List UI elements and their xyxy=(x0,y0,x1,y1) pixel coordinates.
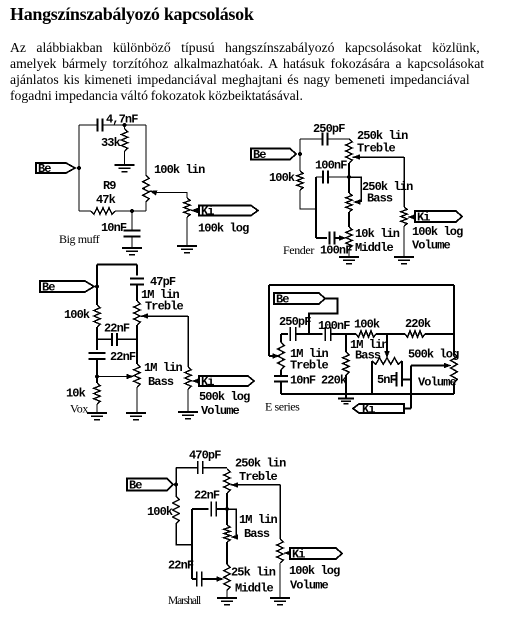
potentiometer 100k log Volume xyxy=(401,207,407,226)
potentiometer 100k log Volume xyxy=(277,539,283,563)
svg-text:22nF: 22nF xyxy=(194,488,220,502)
svg-text:100k: 100k xyxy=(147,505,173,519)
svg-text:Middle: Middle xyxy=(235,581,274,595)
wire Be to top rail xyxy=(299,139,301,154)
svg-text:R9: R9 xyxy=(103,179,116,193)
wire outer box top xyxy=(269,284,454,286)
wire treble wiper to volume xyxy=(403,157,405,207)
node junction top xyxy=(122,123,126,127)
svg-text:33k: 33k xyxy=(101,136,121,150)
capacitor 22nF vertical xyxy=(89,353,106,359)
svg-text:500k log: 500k log xyxy=(408,347,459,361)
ground under Bass xyxy=(126,413,146,420)
wiper wire Treble xyxy=(141,313,149,319)
resistor 220k vertical xyxy=(345,334,347,352)
output tag Ki xyxy=(415,211,462,222)
svg-text:500k log: 500k log xyxy=(199,390,250,404)
svg-text:Ki: Ki xyxy=(417,210,430,224)
svg-text:100k log: 100k log xyxy=(289,564,340,578)
svg-text:100k log: 100k log xyxy=(198,221,249,235)
svg-text:1M lin: 1M lin xyxy=(144,361,183,375)
potentiometer 1M lin Bass body xyxy=(372,358,402,364)
wiper wire Treble xyxy=(353,154,361,160)
svg-text:47k: 47k xyxy=(96,193,116,207)
bass wiper loop xyxy=(227,509,236,537)
potentiometer 250k lin Treble xyxy=(224,469,230,493)
arrow into treble wiper xyxy=(269,355,276,357)
svg-text:250pF: 250pF xyxy=(279,315,311,329)
wire outer box left xyxy=(268,285,270,356)
wire left rail mid xyxy=(96,327,98,350)
capacitor 470pF xyxy=(198,461,203,474)
wire bass left leg xyxy=(371,361,373,394)
wire Ki feed xyxy=(410,394,412,409)
svg-text:Treble: Treble xyxy=(145,299,184,313)
wiper wire of 100k lin xyxy=(150,190,158,195)
svg-text:Fender: Fender xyxy=(283,243,314,257)
svg-text:220k: 220k xyxy=(405,317,431,331)
svg-text:Volume: Volume xyxy=(412,238,451,252)
resistor 100k xyxy=(173,496,179,524)
capacitor 250pF xyxy=(323,133,328,146)
svg-text:Ki: Ki xyxy=(292,547,305,561)
svg-text:5nF: 5nF xyxy=(377,373,397,387)
svg-text:25k lin: 25k lin xyxy=(231,565,276,579)
potentiometer 1M lin Bass xyxy=(224,525,230,542)
potentiometer 250k lin Treble xyxy=(346,139,352,163)
svg-text:100k lin: 100k lin xyxy=(154,163,205,177)
ground under Volume xyxy=(394,257,414,264)
svg-text:47pF: 47pF xyxy=(150,275,176,289)
title xyxy=(10,4,254,25)
resistor 33k xyxy=(124,125,126,129)
capacitor 22nF lower xyxy=(192,578,196,580)
input tag Be xyxy=(40,281,94,292)
resistor 100k xyxy=(356,331,376,337)
wire Be feed xyxy=(309,299,338,335)
svg-text:100k: 100k xyxy=(269,171,295,185)
svg-text:250pF: 250pF xyxy=(313,122,345,136)
svg-text:Ki: Ki xyxy=(201,204,214,218)
svg-text:100nF: 100nF xyxy=(318,319,350,333)
capacitor 47pF xyxy=(136,265,138,276)
svg-text:100k: 100k xyxy=(354,317,380,331)
capacitor 10nF xyxy=(131,211,133,231)
potentiometer 100k lin xyxy=(143,175,149,202)
svg-text:Be: Be xyxy=(38,162,51,176)
svg-text:Bass: Bass xyxy=(244,527,270,541)
svg-text:Marshall: Marshall xyxy=(168,595,201,607)
svg-text:Volume: Volume xyxy=(418,375,457,389)
wire middle rail x192 xyxy=(191,509,193,579)
input tag Be xyxy=(127,479,173,491)
node bottom junction xyxy=(130,209,134,213)
svg-text:470pF: 470pF xyxy=(189,448,221,462)
potentiometer 1M lin Treble xyxy=(134,301,140,325)
ground under Middle xyxy=(217,598,237,605)
capacitor 100nF lower xyxy=(316,237,327,239)
wire left rail xyxy=(78,125,80,211)
output tag Ki xyxy=(290,548,342,559)
node Be junction xyxy=(174,482,178,486)
svg-text:E series: E series xyxy=(265,400,300,414)
resistor 10k xyxy=(94,383,100,404)
wire top rail xyxy=(300,138,322,140)
svg-text:Bass: Bass xyxy=(367,191,393,205)
resistor 100k xyxy=(94,305,100,327)
resistor R9 47k bottom rail xyxy=(79,210,91,212)
potentiometer 500k log Volume xyxy=(453,285,455,353)
bass wiper loop xyxy=(349,177,361,202)
ground under Volume xyxy=(178,412,198,419)
svg-text:Middle: Middle xyxy=(355,241,394,255)
svg-text:10nF: 10nF xyxy=(101,221,127,235)
svg-text:100nF: 100nF xyxy=(315,158,347,172)
capacitor 10nF xyxy=(280,370,282,376)
svg-text:Vox: Vox xyxy=(70,402,88,416)
capacitor 4,7nF xyxy=(98,119,103,132)
svg-text:22nF: 22nF xyxy=(168,558,194,572)
wire top rail xyxy=(97,264,137,266)
ground under Volume xyxy=(270,598,290,605)
svg-text:10k lin: 10k lin xyxy=(355,227,400,241)
capacitor 250pF xyxy=(290,327,296,341)
svg-text:Big muff: Big muff xyxy=(59,232,100,246)
resistor 100k xyxy=(299,154,301,171)
ground under Middle xyxy=(339,257,359,264)
ground under 10k xyxy=(87,413,107,420)
wire left rail upper xyxy=(96,265,98,306)
ground under 33k xyxy=(115,165,135,172)
svg-text:22nF: 22nF xyxy=(110,350,136,364)
svg-text:Volume: Volume xyxy=(201,404,240,418)
input tag Be xyxy=(251,149,296,160)
svg-text:1M lin: 1M lin xyxy=(239,513,278,527)
potentiometer 1M lin Bass wiper xyxy=(386,334,388,354)
svg-text:Treble: Treble xyxy=(239,470,278,484)
wire to volume xyxy=(187,316,189,367)
svg-text:10nF: 10nF xyxy=(290,373,316,387)
svg-text:Be: Be xyxy=(276,292,289,306)
output tag Ki xyxy=(353,404,404,413)
svg-text:22nF: 22nF xyxy=(104,321,130,335)
output tag Ki xyxy=(199,376,254,386)
wiper arrow Volume xyxy=(192,378,200,384)
node treble-bass junction xyxy=(347,175,351,179)
svg-text:Be: Be xyxy=(42,280,55,294)
wire bass right leg xyxy=(401,361,403,372)
capacitor 5nF xyxy=(397,372,403,387)
wire left rail xyxy=(175,468,177,496)
input tag Be xyxy=(36,163,75,173)
svg-text:Bass: Bass xyxy=(148,375,174,389)
wire bottom rail xyxy=(281,393,454,395)
svg-text:Be: Be xyxy=(253,148,266,162)
paragraph xyxy=(10,40,506,104)
node Be junction xyxy=(77,166,81,170)
node Be junction xyxy=(95,284,99,288)
svg-text:Treble: Treble xyxy=(357,141,396,155)
wire top rail xyxy=(79,124,98,126)
svg-text:100k: 100k xyxy=(64,308,90,322)
wire right rail xyxy=(226,493,228,525)
wiper wire Treble xyxy=(231,482,239,488)
svg-text:250k lin: 250k lin xyxy=(235,456,286,470)
wire right rail xyxy=(145,125,147,175)
potentiometer 500k log Volume xyxy=(185,367,191,389)
svg-text:100nF: 100nF xyxy=(320,243,352,257)
svg-text:Volume: Volume xyxy=(290,578,329,592)
resistor 220k horizontal xyxy=(405,331,425,337)
wire middle rail x316 xyxy=(315,177,317,238)
potentiometer 1M lin Treble xyxy=(280,334,282,342)
svg-text:Bass: Bass xyxy=(355,348,381,362)
ground on bottom rail xyxy=(345,394,347,399)
capacitor 22nF horizontal xyxy=(97,338,111,340)
wire to bass wiper xyxy=(97,376,130,378)
wiper arrow Volume xyxy=(284,550,292,556)
node bass feed junction xyxy=(95,374,99,378)
svg-text:Ki: Ki xyxy=(201,375,214,389)
svg-text:4,7nF: 4,7nF xyxy=(106,112,138,126)
ground under 10nF xyxy=(122,248,142,255)
wire to volume xyxy=(279,485,281,540)
svg-text:10k: 10k xyxy=(66,386,86,400)
wire volume wiper rail xyxy=(410,366,412,395)
wiper arrow Volume xyxy=(408,214,416,220)
svg-text:Be: Be xyxy=(129,478,142,492)
potentiometer 25k lin Middle xyxy=(224,564,230,591)
svg-text:220k: 220k xyxy=(321,373,347,387)
potentiometer 100k log xyxy=(184,198,190,217)
wire top rail xyxy=(176,467,198,469)
wire cap rail xyxy=(281,333,288,335)
svg-text:Treble: Treble xyxy=(290,358,329,372)
output tag Ki xyxy=(199,206,258,216)
input tag Be xyxy=(274,293,325,304)
potentiometer 1M lin Bass xyxy=(134,364,140,387)
node junction xyxy=(225,507,229,511)
ground under 100k log xyxy=(177,246,197,253)
node Be junction xyxy=(298,152,302,156)
potentiometer 10k lin Middle xyxy=(346,227,352,249)
wiper arrow 100k log xyxy=(191,208,199,214)
svg-text:Ki: Ki xyxy=(362,402,375,416)
svg-text:100k log: 100k log xyxy=(412,225,463,239)
capacitor 22nF upper xyxy=(192,508,209,510)
capacitor 100nF xyxy=(325,327,331,341)
potentiometer 250k lin Bass xyxy=(346,193,352,212)
capacitor 100nF upper xyxy=(316,176,322,178)
